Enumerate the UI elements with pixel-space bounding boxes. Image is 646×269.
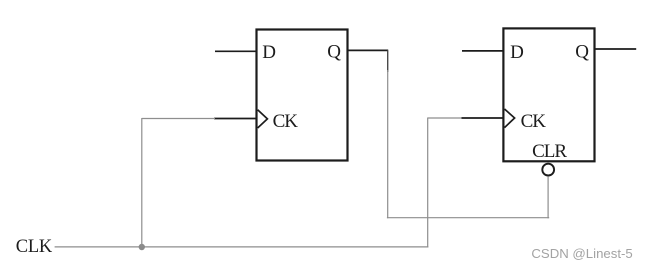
flip-flop U2 body [503,28,594,161]
wire junction riser to U1 CK [141,118,143,247]
svg-text:D: D [262,42,276,63]
U1 clock edge triangle [258,110,268,128]
svg-text:CLR: CLR [532,141,567,162]
wire CLK horizontal run [55,246,429,248]
U2 CLR active-low bubble [542,164,554,176]
svg-text:Q: Q [575,42,589,63]
svg-text:CSDN @Linest-5: CSDN @Linest-5 [531,246,632,261]
svg-text:Q: Q [327,42,341,63]
junction node on CLK net [139,244,145,250]
wire CLK riser to U2 CK [427,118,429,248]
flip-flop U1 body [257,30,348,161]
wire U1 Q drop [387,70,389,218]
wire from riser to U1 CK stub [142,118,215,120]
svg-text:CLK: CLK [16,237,53,257]
svg-text:D: D [510,42,524,63]
wire U1 Q to U2 CLR horizontal run [387,217,549,219]
U1 CK input stub wire [214,118,257,120]
U2 D input stub wire [462,50,503,52]
U2 clock edge triangle [505,109,515,128]
wire riser to U2 CLR bubble [547,176,549,218]
U2 CK input stub wire [461,117,503,119]
svg-text:CK: CK [521,111,547,132]
U1 Q output stub wire [348,49,389,51]
svg-text:CK: CK [273,111,299,132]
wire from riser to U2 CK stub [428,117,462,119]
wire U1 Q drop (dark upper part) [387,50,389,72]
U1 D input stub wire [215,50,257,52]
U2 Q output stub wire [595,48,637,50]
